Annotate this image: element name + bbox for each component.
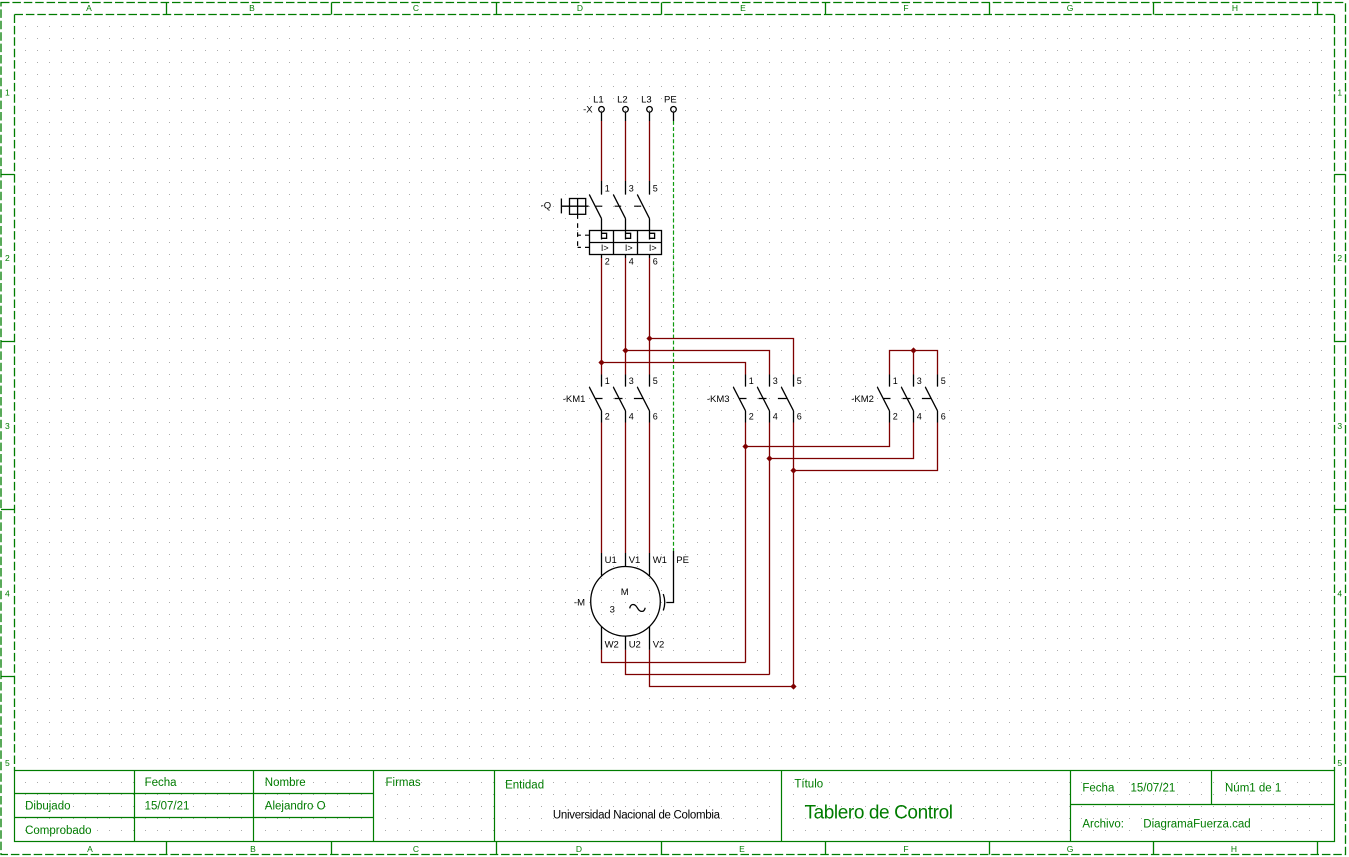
svg-text:3: 3 (5, 421, 10, 431)
svg-text:H: H (1231, 844, 1237, 854)
svg-text:-Q: -Q (541, 201, 552, 212)
breaker -Q linkage dashes (578, 206, 642, 247)
svg-text:DiagramaFuerza.cad: DiagramaFuerza.cad (1143, 818, 1250, 830)
svg-text:I>: I> (649, 243, 657, 253)
svg-text:I>: I> (625, 243, 633, 253)
svg-text:Nombre: Nombre (265, 777, 306, 789)
wire KM1 pin6 to motor W1 (649, 423, 651, 554)
svg-text:2: 2 (605, 257, 610, 267)
svg-text:3: 3 (1337, 421, 1342, 431)
svg-text:PE: PE (664, 95, 677, 106)
wire motor U2 bus (626, 650, 770, 675)
svg-text:-KM2: -KM2 (851, 394, 874, 405)
breaker -Q actuator (561, 199, 588, 215)
wire PE green dashed drop (673, 121, 675, 551)
svg-text:D: D (577, 3, 583, 13)
svg-text:4: 4 (1337, 588, 1342, 598)
terminal -X:4 PE (671, 107, 677, 122)
svg-text:Firmas: Firmas (386, 777, 421, 789)
svg-text:15/07/21: 15/07/21 (1131, 782, 1176, 794)
svg-text:-KM1: -KM1 (563, 394, 586, 405)
svg-text:2: 2 (5, 253, 10, 263)
motor sine symbol (630, 605, 646, 612)
svg-text:V2: V2 (653, 640, 665, 651)
svg-text:Alejandro O: Alejandro O (265, 801, 326, 813)
junction node V2 bus corner (790, 683, 796, 689)
svg-text:L3: L3 (641, 95, 652, 106)
breaker -Q magnetic trip labels I> (601, 243, 657, 253)
wire motor V2 bus (650, 650, 794, 687)
svg-text:U1: U1 (605, 555, 617, 566)
svg-text:1: 1 (5, 88, 10, 98)
svg-text:15/07/21: 15/07/21 (145, 801, 190, 813)
breaker -Q pin labels 2 4 6 (605, 257, 658, 267)
wire L2 to breaker (625, 121, 627, 181)
svg-text:E: E (740, 3, 746, 13)
svg-text:A: A (86, 3, 92, 13)
svg-text:Archivo:: Archivo: (1082, 818, 1124, 830)
wire L1 to breaker (601, 121, 603, 181)
svg-text:5: 5 (653, 184, 658, 194)
breaker -Q thermal elements (602, 231, 655, 240)
svg-text:Comprobado: Comprobado (25, 825, 91, 837)
svg-text:Título: Título (794, 779, 823, 791)
svg-text:5: 5 (1337, 758, 1342, 768)
junction node on L2 branch (622, 347, 628, 353)
breaker -Q pole 1-2 contact (589, 181, 601, 231)
CIRCUIT (541, 95, 946, 690)
svg-text:1: 1 (605, 184, 610, 194)
svg-text:Fecha: Fecha (145, 777, 178, 789)
wire PE to motor frame (666, 551, 673, 603)
svg-text:Núm1 de 1: Núm1 de 1 (1225, 782, 1281, 794)
wire KM2 star bridge (890, 351, 938, 375)
wire branch to KM2 pin2 (746, 423, 890, 447)
junction node KM3 pin6 branch (790, 467, 796, 473)
svg-text:Dibujado: Dibujado (25, 801, 70, 813)
svg-text:4: 4 (5, 588, 10, 598)
wire KM3 pin4 down to U2 bus (769, 423, 771, 675)
svg-text:L2: L2 (617, 95, 628, 106)
svg-text:4: 4 (629, 257, 634, 267)
svg-text:L1: L1 (593, 95, 604, 106)
breaker -Q bottom stubs (602, 255, 650, 259)
svg-text:Tablero de Control: Tablero de Control (805, 803, 953, 824)
junction node on L1 branch (598, 359, 604, 365)
svg-text:F: F (903, 3, 908, 13)
wire branch to KM2 pin6 (794, 423, 938, 471)
svg-text:-X: -X (583, 104, 593, 115)
contactor -KM3 contacts (733, 375, 802, 423)
wire L3 to breaker (649, 121, 651, 181)
svg-text:3: 3 (629, 184, 634, 194)
contactor -KM2 contacts (877, 375, 946, 423)
svg-text:F: F (903, 844, 908, 854)
svg-text:A: A (87, 844, 93, 854)
wire KM1 pin4 to motor V1 (625, 423, 627, 554)
svg-text:Fecha: Fecha (1082, 782, 1115, 794)
terminal -X:3 L3 (647, 107, 653, 122)
svg-text:V1: V1 (629, 555, 641, 566)
svg-text:-KM3: -KM3 (707, 394, 730, 405)
svg-text:M: M (621, 587, 629, 598)
wire KM3 pin6 down to V2 bus (793, 423, 795, 687)
svg-text:I>: I> (601, 243, 609, 253)
junction node on L3 branch (646, 335, 652, 341)
svg-text:6: 6 (653, 257, 658, 267)
breaker -Q trip unit box (590, 231, 662, 255)
wire motor W2 bus (602, 650, 746, 663)
terminal -X:1 L1 (599, 107, 605, 122)
svg-text:3: 3 (610, 604, 615, 615)
svg-text:-M: -M (574, 598, 585, 609)
svg-text:D: D (576, 844, 582, 854)
motor -M body circle (591, 567, 661, 637)
svg-text:U2: U2 (629, 640, 641, 651)
svg-text:PE: PE (676, 555, 689, 566)
junction node KM3 pin2 branch (742, 443, 748, 449)
svg-text:1: 1 (1337, 88, 1342, 98)
svg-text:W1: W1 (653, 555, 667, 566)
motor -M bottom terminal stubs (602, 627, 650, 650)
motor -M top terminal stubs (602, 553, 650, 576)
wire KM3 pin2 down to W2 bus (745, 423, 747, 663)
svg-text:G: G (1067, 844, 1074, 854)
svg-text:W2: W2 (605, 640, 619, 651)
svg-text:C: C (413, 844, 419, 854)
breaker -Q pin labels 1 3 5 (605, 184, 658, 194)
svg-text:Entidad: Entidad (505, 779, 544, 791)
svg-text:B: B (249, 3, 255, 13)
motor frame PE arc (663, 594, 664, 610)
svg-text:Universidad Nacional de Colom: Universidad Nacional de Colombia (553, 810, 721, 822)
svg-text:G: G (1067, 3, 1074, 13)
svg-text:2: 2 (1337, 253, 1342, 263)
terminal -X:2 L2 (623, 107, 629, 122)
wire Q2 to KM1 pin1 (601, 258, 603, 375)
breaker -Q pole 5-6 contact (637, 181, 649, 231)
junction node star bridge (910, 347, 916, 353)
wire branch to KM2 pin4 (770, 423, 914, 459)
svg-text:5: 5 (5, 758, 10, 768)
svg-text:E: E (739, 844, 745, 854)
wire Q4 to KM1 pin3 (625, 258, 627, 375)
svg-text:B: B (250, 844, 256, 854)
junction node KM3 pin4 branch (766, 455, 772, 461)
breaker -Q pole 3-4 contact (613, 181, 625, 231)
svg-text:H: H (1232, 3, 1238, 13)
wire branch L2 to KM3 pin3 (626, 351, 770, 375)
wire branch L3 to KM3 pin5 (650, 339, 794, 375)
wire Q6 to KM1 pin5 (649, 258, 651, 375)
contactor -KM1 contacts (589, 375, 658, 423)
svg-text:C: C (413, 3, 419, 13)
wire KM1 pin2 to motor U1 (601, 423, 603, 554)
TITLE BLOCK (15, 771, 1335, 842)
wire branch L1 to KM3 pin1 (602, 363, 746, 375)
